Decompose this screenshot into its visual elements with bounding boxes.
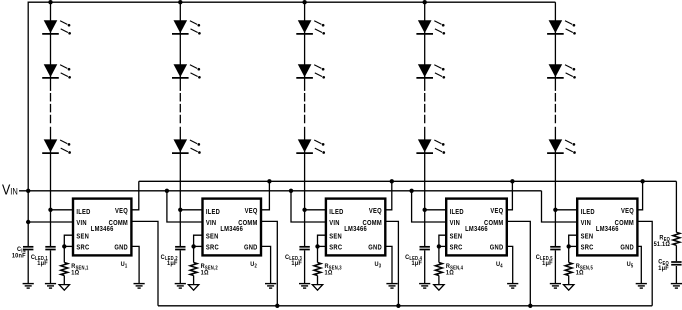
capacitor CLED,4 (420, 247, 430, 250)
ground CLED,5 (550, 284, 561, 289)
svg-text:VIN: VIN (76, 220, 86, 228)
junction: VIN rail drop U2 (165, 189, 169, 193)
wire: SRC stub U2 (194, 245, 203, 247)
svg-text:SRC: SRC (206, 244, 219, 252)
wire: SRC stub U3 (318, 245, 326, 247)
ground CLED,1 (45, 284, 56, 289)
wire: ILED stub U3 (305, 209, 326, 211)
wire: RSEN,4 to ground (438, 276, 440, 285)
capacitor CIN (23, 247, 33, 250)
label CLED,2 value (161, 253, 178, 267)
svg-text:VEQ: VEQ (369, 208, 382, 216)
wire: RSEN,3 to ground (317, 276, 319, 285)
svg-text:ILED: ILED (450, 208, 464, 216)
capacitor CEQ (671, 262, 681, 265)
svg-text:LM3466: LM3466 (91, 226, 114, 234)
wire: CLED,5 to ground (554, 250, 556, 283)
capacitor CLED,5 (550, 247, 560, 250)
svg-text:VIN: VIN (329, 220, 339, 228)
junction: string 1 anode on top rail (48, 0, 52, 4)
wire: VEQ riser U4 (507, 181, 513, 210)
wire: LED string 2 dashed continuation (179, 93, 181, 124)
op-amp/IC U5 LM3466 (577, 199, 637, 256)
ground CIN (23, 284, 34, 289)
junction: VEQ bus tap U2 (267, 179, 271, 183)
wire: LED cathode to CLED,5 (554, 210, 556, 246)
node: LED string 2 (172, 2, 201, 210)
wire: VIN drop to U2 (167, 191, 203, 222)
svg-text:SEN: SEN (76, 233, 89, 241)
svg-text:1μF: 1μF (411, 260, 422, 268)
wire: VEQ riser U2 (261, 181, 269, 210)
junction: SEN-SRC node U1 (62, 244, 66, 248)
wire: SRC node to RSEN,3 (317, 246, 319, 262)
svg-text:VEQ: VEQ (490, 208, 503, 216)
wire: LED string 5 dashed continuation (554, 93, 556, 124)
ground (triangle) RSEN,1 (59, 285, 69, 291)
wire: COMM riser U5 (637, 221, 652, 305)
svg-text:SRC: SRC (581, 244, 594, 252)
junction: COMM bus tap U4 (528, 304, 532, 308)
wire: VIN stub U1 (28, 221, 73, 223)
svg-text:ILED: ILED (329, 208, 343, 216)
svg-text:1μF: 1μF (658, 265, 669, 273)
op-amp/IC U3 LM3466 (326, 199, 385, 256)
resistor RSEN,3 (314, 263, 321, 276)
wire: COMM riser U4 (507, 221, 531, 305)
svg-text:VIN: VIN (450, 220, 460, 228)
wire: SEN loop U4 (439, 235, 446, 246)
wire: LED string 3 upper column (304, 2, 306, 91)
LED string 5 diode 2 (547, 64, 576, 78)
ground (triangle) RSEN,3 (312, 285, 322, 291)
label CLED,3 value (285, 253, 302, 267)
wire: LED cathode to CLED,1 (50, 210, 52, 246)
wire: LED string 1 dashed continuation (50, 93, 52, 124)
wire: CIN to ground (27, 250, 29, 283)
label CEQ value (658, 258, 669, 272)
wire: GND pin drop U5 (637, 246, 641, 283)
wire: LED cathode to CLED,2 (179, 210, 181, 246)
svg-text:10nF: 10nF (12, 252, 26, 260)
svg-text:GND: GND (114, 244, 128, 252)
wire: LED string 3 dashed continuation (304, 93, 306, 124)
junction: string 3 cathode / ILED node (302, 208, 306, 212)
svg-text:SEN: SEN (581, 233, 594, 241)
LED string 1 diode 1 (42, 20, 71, 34)
svg-text:ILED: ILED (581, 208, 595, 216)
LED string 3 diode 2 (296, 64, 325, 78)
wire: VEQ equalization bus (139, 180, 677, 182)
wire: VEQ riser U5 (637, 181, 642, 210)
LED string 4 diode 1 (416, 20, 445, 34)
LED string 2 diode 1 (172, 20, 201, 34)
node: LED string 4 (416, 2, 445, 210)
svg-text:ILED: ILED (76, 208, 90, 216)
capacitor CLED,3 (299, 247, 309, 250)
LED string 5 diode 1 (547, 20, 576, 34)
junction: VEQ bus tap U4 (510, 179, 514, 183)
wire: LED string 1 upper column (50, 2, 52, 91)
wire: COMM riser U1 (131, 221, 158, 305)
svg-text:1μF: 1μF (291, 260, 302, 268)
wire: GND pin drop U1 (131, 246, 139, 283)
wire: LED string 2 upper column (179, 2, 181, 91)
ground (triangle) RSEN,5 (564, 285, 574, 291)
label CLED,1 value (31, 253, 48, 267)
label CIN value (12, 246, 26, 260)
resistor RSEN,1 (61, 263, 68, 276)
junction: VIN rail drop U4 (409, 189, 413, 193)
wire: COMM riser U2 (261, 221, 277, 305)
svg-text:LM3466: LM3466 (596, 226, 619, 234)
LED string 2 diode 2 (172, 64, 201, 78)
svg-text:ILED: ILED (206, 208, 220, 216)
wire: VIN rail (19, 190, 542, 192)
svg-text:1Ω: 1Ω (325, 269, 333, 277)
wire: CLED,4 to ground (424, 250, 426, 283)
svg-text:SEN: SEN (329, 233, 342, 241)
svg-text:SEN: SEN (206, 233, 219, 241)
wire: RSEN,5 to ground (568, 276, 570, 285)
wire: LED string 4 upper column (424, 2, 426, 91)
wire: GND pin drop U2 (261, 246, 271, 283)
label CLED,4 value (405, 253, 422, 267)
junction: COMM bus tap U2 (275, 304, 279, 308)
svg-text:VEQ: VEQ (245, 208, 258, 216)
svg-text:GND: GND (368, 244, 382, 252)
label RSEN,3 value (325, 263, 342, 277)
wire: SRC node to RSEN,5 (568, 246, 570, 262)
wire: LED cathode to CLED,4 (424, 210, 426, 246)
svg-text:SRC: SRC (450, 244, 463, 252)
junction: VIN pin tee U1 (26, 220, 30, 224)
resistor REQ (673, 232, 680, 245)
wire: VIN drop to U5 (542, 191, 578, 222)
junction: VEQ bus tap U5 (640, 179, 644, 183)
wire: COMM riser U3 (385, 221, 398, 305)
svg-text:VEQ: VEQ (115, 208, 128, 216)
label RSEN,5 value (576, 263, 593, 277)
wire: SEN loop U1 (64, 235, 73, 246)
op-amp/IC U1 LM3466 (73, 199, 131, 256)
LED string 4 diode 2 (416, 64, 445, 78)
svg-text:LM3466: LM3466 (465, 226, 488, 234)
wire: CEQ to ground (675, 266, 677, 284)
wire: SRC stub U5 (569, 245, 578, 247)
LED string 1 diode 2 (42, 64, 71, 78)
svg-text:VEQ: VEQ (621, 208, 634, 216)
wire: ILED stub U2 (180, 209, 202, 211)
wire: REQ to CEQ (675, 245, 677, 261)
junction: string 1 cathode / ILED node (48, 208, 52, 212)
LED string 2 diode 3 (172, 139, 201, 153)
wire: RSEN,1 to ground (63, 276, 65, 285)
wire: LED string 4 lower column to ILED (424, 127, 426, 210)
node: LED string 1 (42, 2, 71, 210)
junction: VIN rail to input column (26, 189, 30, 193)
wire: LED string 5 lower column to ILED (554, 127, 556, 210)
junction: string 2 cathode / ILED node (178, 208, 182, 212)
wire: CLED,2 to ground (179, 250, 181, 283)
ground (triangle) RSEN,4 (434, 285, 444, 291)
wire: LED string 5 upper column (554, 2, 556, 91)
op-amp/IC U4 LM3466 (446, 199, 507, 256)
label CLED,5 value (536, 253, 553, 267)
svg-text:SRC: SRC (329, 244, 342, 252)
ground CLED,4 (419, 284, 430, 289)
LED string 4 diode 3 (416, 139, 445, 153)
wire: LED string 4 dashed continuation (424, 93, 426, 124)
junction: VIN rail drop U3 (289, 189, 293, 193)
svg-text:1Ω: 1Ω (446, 269, 454, 277)
LED string 3 diode 1 (296, 20, 325, 34)
wire: VEQ bus to REQ (675, 181, 677, 232)
op-amp/IC U2 LM3466 (203, 199, 262, 256)
resistor RSEN,4 (435, 263, 442, 276)
junction: SEN-SRC node U3 (315, 244, 319, 248)
ground GND pin U2 (265, 284, 276, 289)
ground CEQ (671, 284, 682, 289)
resistor RSEN,2 (190, 263, 197, 276)
LED string 5 diode 3 (547, 139, 576, 153)
wire: SRC node to RSEN,4 (438, 246, 440, 262)
wire: LED string 1 lower column to ILED (50, 127, 52, 210)
svg-text:1Ω: 1Ω (576, 269, 584, 277)
wire: SRC node to RSEN,1 (63, 246, 65, 262)
junction: SEN-SRC node U2 (191, 244, 195, 248)
wire: GND pin drop U3 (385, 246, 392, 283)
ground GND pin U4 (507, 284, 518, 289)
label RSEN,1 value (71, 263, 88, 277)
resistor RSEN,5 (565, 263, 572, 276)
svg-text:GND: GND (244, 244, 258, 252)
wire: ILED stub U5 (555, 209, 577, 211)
wire: LED cathode to CLED,3 (304, 210, 306, 246)
node: LED string 5 (547, 2, 576, 210)
svg-text:GND: GND (620, 244, 634, 252)
label RSEN,4 value (446, 263, 463, 277)
capacitor CLED,1 (45, 247, 55, 250)
wire: SEN loop U2 (194, 235, 203, 246)
junction: VEQ bus tap U3 (390, 179, 394, 183)
wire: SEN loop U3 (318, 235, 326, 246)
wire: COMM bottom bus (158, 305, 652, 307)
wire: input column VIN rail to CIN (27, 191, 29, 246)
svg-text:1Ω: 1Ω (201, 269, 209, 277)
junction: string 4 cathode / ILED node (423, 208, 427, 212)
wire: SRC stub U1 (64, 245, 73, 247)
capacitor CLED,2 (175, 247, 185, 250)
ground GND pin U1 (134, 284, 145, 289)
wire: SEN loop U5 (569, 235, 578, 246)
junction: string 4 anode on top rail (423, 0, 427, 4)
junction: SEN-SRC node U4 (437, 244, 441, 248)
wire: CLED,3 to ground (304, 250, 306, 283)
wire: SRC stub U4 (439, 245, 446, 247)
label REQ value (654, 234, 671, 248)
svg-text:1μF: 1μF (167, 260, 178, 268)
svg-text:VIN: VIN (206, 220, 216, 228)
junction: SEN-SRC node U5 (567, 244, 571, 248)
wire: LED string 3 lower column to ILED (304, 127, 306, 210)
wire: top anode rail (28, 2, 555, 191)
svg-text:GND: GND (490, 244, 504, 252)
wire: ILED stub U4 (425, 209, 447, 211)
wire: ILED stub U1 (51, 209, 74, 211)
junction: string 3 anode on top rail (302, 0, 306, 4)
wire: VEQ riser U3 (385, 181, 392, 210)
junction: string 2 anode on top rail (178, 0, 182, 4)
wire: SRC node to RSEN,2 (193, 246, 195, 262)
label RSEN,2 value (201, 263, 218, 277)
wire: GND pin drop U4 (507, 246, 513, 283)
wire: LED string 2 lower column to ILED (179, 127, 181, 210)
wire: VIN drop to U4 (412, 191, 447, 222)
junction: COMM bus tap U3 (396, 304, 400, 308)
ground CLED,3 (299, 284, 310, 289)
wire: VIN drop to U3 (291, 191, 326, 222)
ground CLED,2 (175, 284, 186, 289)
wire: VEQ riser U1 (131, 181, 138, 210)
ground GND pin U5 (636, 284, 647, 289)
svg-text:SRC: SRC (76, 244, 89, 252)
node: LED string 3 (296, 2, 325, 210)
svg-text:VIN: VIN (581, 220, 591, 228)
svg-text:LM3466: LM3466 (220, 226, 243, 234)
svg-text:1μF: 1μF (37, 260, 48, 268)
svg-text:51.1Ω: 51.1Ω (654, 240, 671, 248)
ground GND pin U3 (386, 284, 397, 289)
LED string 1 diode 3 (42, 139, 71, 153)
LED string 3 diode 3 (296, 139, 325, 153)
svg-text:LM3466: LM3466 (344, 226, 367, 234)
ground (triangle) RSEN,2 (188, 285, 198, 291)
wire: CLED,1 to ground (50, 250, 52, 283)
svg-text:1μF: 1μF (542, 260, 553, 268)
wire: RSEN,2 to ground (193, 276, 195, 285)
junction: string 5 cathode / ILED node (553, 208, 557, 212)
svg-text:1Ω: 1Ω (71, 269, 79, 277)
svg-text:SEN: SEN (450, 233, 463, 241)
